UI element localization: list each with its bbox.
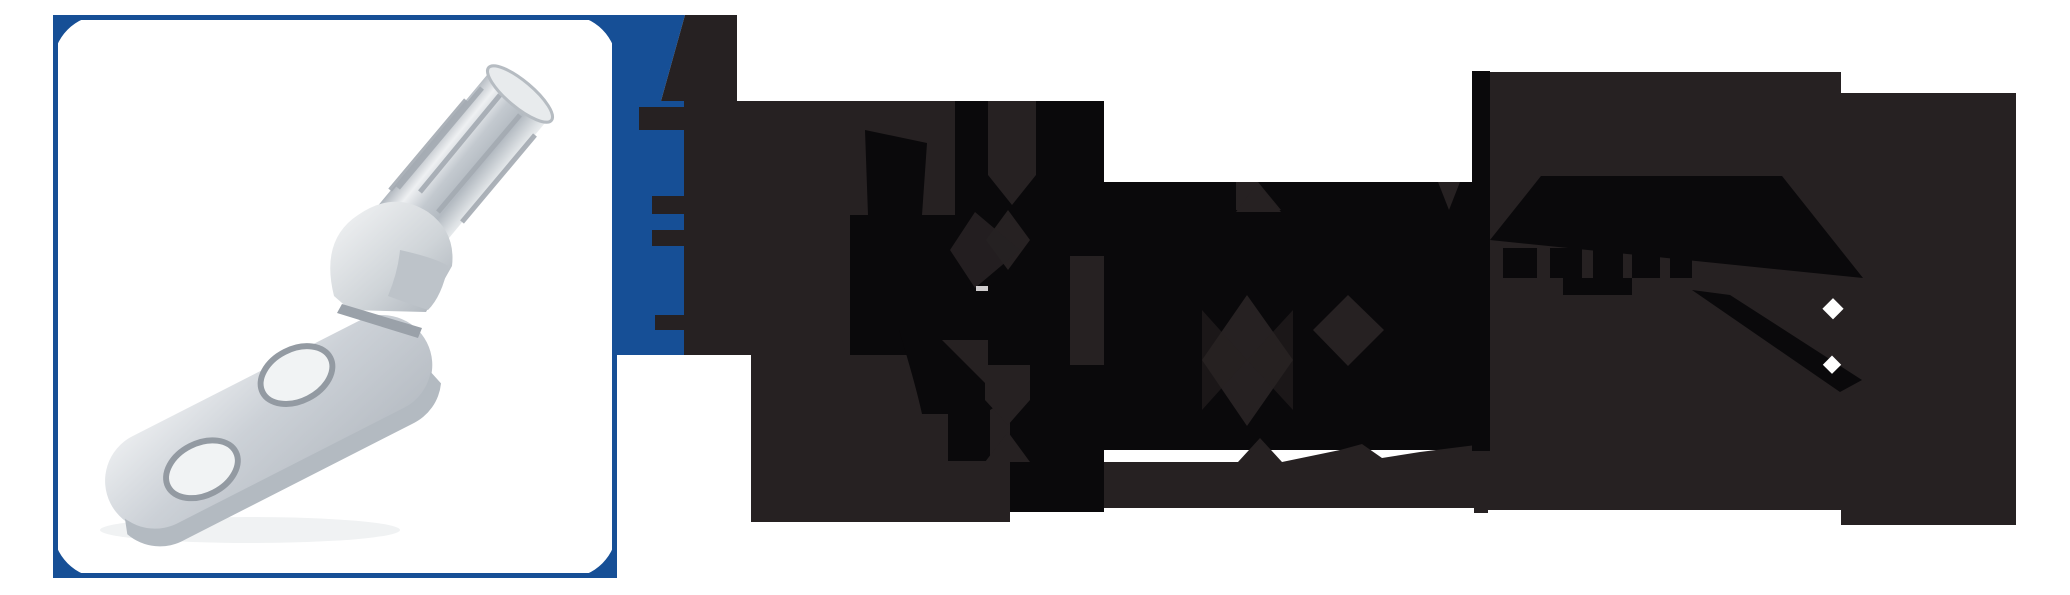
card border corner wedge bottom-right [567,528,617,578]
drawing zone: grey header block left of white strip [661,15,737,101]
black column through white strip [1472,71,1490,451]
arrow cross X [986,210,1030,270]
grey wedge right of white [1438,182,1460,210]
big down arrow (dimension) [988,101,1036,205]
up arrow under white [1236,182,1281,210]
photo neck underside shade [388,250,448,310]
palm hole 1 (near neck) [251,335,342,416]
photo palm (flat tongue with two holes) [85,292,457,562]
crimp dashes row [1503,248,1692,278]
black wedge inside grey body [865,130,927,215]
drawing zone: middle dark mass [1104,182,1488,450]
drawing zone: grey nick 4 [655,315,684,330]
product card: blue rounded border frame [53,15,617,578]
white strip W2 [1104,0,1488,182]
blue vertical band right of card [612,15,685,355]
photo soft shadow under palm [100,517,400,543]
card border corner wedge top-left [53,15,103,65]
photo barrel tip cap [480,58,560,131]
white top right strips [1488,0,1841,72]
white strip W1 over drawing [737,0,1104,101]
bowtie crossing left: X of arrowheads [1202,295,1293,426]
card border corner wedge top-right [567,15,617,65]
crimp dash cluster lower [1563,278,1632,295]
bowtie crossing right: diamond [1313,295,1384,366]
grey X upper left [950,212,1020,288]
white text dash [976,286,988,291]
value block white counters [1131,356,1140,363]
grey bottom band middle [1104,438,1488,513]
drawing zone: grey nick 3 [652,230,684,246]
white right margin [2016,0,2070,595]
photo neck dome [330,202,452,312]
drawing zone: main dark mass (top view area) [684,101,1104,522]
grey notch in blob [942,340,988,386]
photo neck seam [337,304,422,338]
top view black blob inside grey [899,330,1020,461]
white box W3 below blue band [617,355,751,523]
white top margin [617,0,737,15]
white diamond nick 2 [1823,356,1841,374]
card border corner wedge bottom-left [53,528,103,578]
drawing zone: side view grey mass [1488,72,1841,510]
drawing zone: grey tooth bite into band [639,107,684,130]
grey hourglass column lower [985,365,1030,462]
photo barrel (metal tube) [361,69,550,274]
palm hole 2 (near tip) [156,429,247,510]
product photo: cable lug [85,58,560,563]
grey value block [1070,256,1206,365]
top view grey body left [684,101,955,215]
drawing zone: grey nick 2 [652,196,684,214]
side view black hump trapezoid [1490,176,1863,278]
black diagonal leader line [1692,290,1862,392]
white diamond nick 1 [1822,298,1843,319]
photo barrel texture streaks [390,88,535,222]
